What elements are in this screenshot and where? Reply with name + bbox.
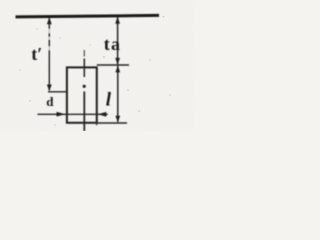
- centerline upper segment: [83, 50, 85, 57]
- right edge stub below bottom: [96, 123, 98, 126]
- arrow ta down: [115, 58, 120, 65]
- reference line at t' bottom: [48, 91, 67, 93]
- top extension line: [97, 64, 129, 66]
- centerline middle segment: [83, 59, 85, 78]
- arrow d right: [98, 112, 106, 117]
- arrow l down: [115, 116, 120, 123]
- centerline lower segment: [83, 92, 85, 132]
- arrow d left: [57, 112, 66, 117]
- bottom extension line: [97, 122, 127, 124]
- center dot: [83, 85, 86, 88]
- arrow t' down: [47, 85, 52, 92]
- dimension line t': [48, 18, 50, 91]
- fade gaps on t' line: [48, 29, 51, 50]
- ground surface line: [16, 15, 160, 17]
- scan noise speckles: [19, 16, 170, 126]
- arrow t' up: [47, 17, 52, 24]
- dimension line l: [117, 66, 119, 122]
- foundation block rectangle: [67, 67, 97, 122]
- dimension line d leader: [38, 113, 108, 115]
- dimension line ta: [117, 17, 119, 64]
- arrow l up: [115, 66, 120, 73]
- film grain: [0, 0, 1, 1]
- arrow ta up: [115, 17, 120, 24]
